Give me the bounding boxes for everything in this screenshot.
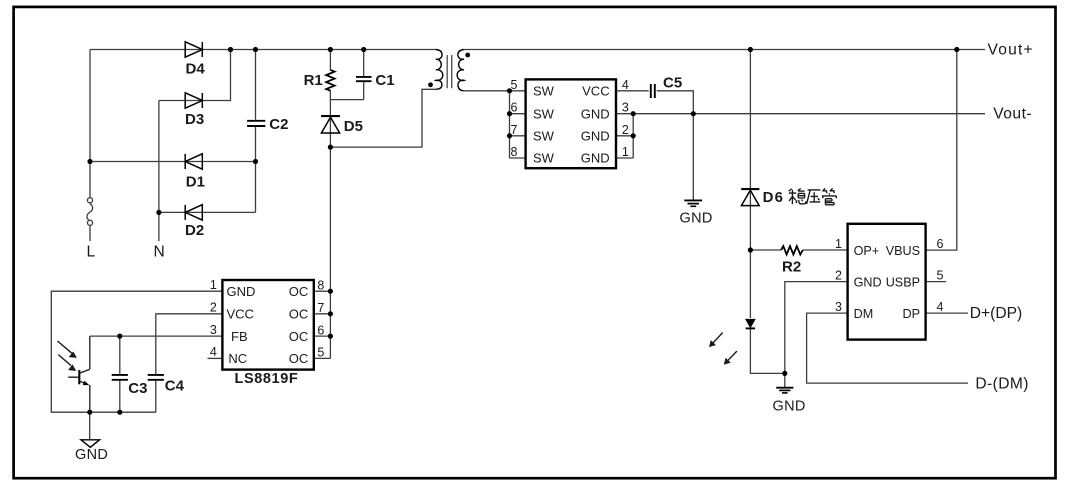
svg-text:1: 1	[210, 278, 217, 292]
svg-text:C1: C1	[375, 72, 394, 89]
wire U1 pin 7 stub	[510, 135, 526, 137]
junction node pin 5 bus	[507, 88, 512, 93]
svg-text:C5: C5	[663, 75, 682, 92]
wire C2 vertical branch	[255, 50, 257, 213]
svg-text:D3: D3	[185, 111, 204, 128]
wire U1 pin 6 stub	[510, 113, 526, 115]
svg-text:SW: SW	[533, 128, 555, 143]
svg-text:6: 6	[511, 101, 518, 115]
wire D2 row	[159, 211, 256, 213]
diode D1	[185, 154, 202, 169]
svg-text:N: N	[154, 243, 165, 260]
svg-text:SW: SW	[533, 106, 555, 121]
svg-text:SW: SW	[533, 84, 555, 99]
wire U3 pin 3 stub	[314, 335, 331, 337]
transformer T1 core	[447, 55, 452, 88]
wire U3 pin 4 NC stub	[208, 357, 223, 359]
junction node N / D2 row	[156, 210, 161, 215]
svg-text:GND: GND	[581, 106, 610, 121]
light arrow 2 into phototransistor	[58, 355, 71, 366]
svg-text:5: 5	[511, 78, 518, 92]
capacitor C1 plates	[356, 77, 372, 81]
svg-text:DM: DM	[854, 307, 874, 321]
ground symbol (earth) below middle IC	[684, 200, 702, 206]
svg-text:6: 6	[317, 323, 324, 337]
svg-text:NC: NC	[228, 351, 247, 366]
wire R2 row	[750, 249, 847, 251]
wire C5 right to Vout- junction	[657, 91, 694, 114]
junction node OC pin 8	[328, 289, 333, 294]
junction node right ground	[782, 371, 787, 376]
svg-text:5: 5	[317, 346, 324, 360]
capacitor C2 plates	[247, 121, 265, 126]
svg-text:Vout-: Vout-	[993, 106, 1032, 123]
light arrow 1 into phototransistor	[58, 341, 77, 371]
transformer secondary phase dot	[465, 53, 470, 58]
wire U1 left pin bus vertical	[509, 91, 511, 158]
junction node top rail / D6 branch	[748, 47, 753, 52]
junction node C3 / bottom rail	[117, 410, 122, 415]
wire right ground drop	[784, 373, 786, 387]
svg-text:FB: FB	[231, 329, 248, 344]
capacitor C3 plates	[112, 375, 128, 380]
svg-text:OC: OC	[289, 351, 309, 366]
svg-text:GND: GND	[680, 210, 713, 226]
wire D6 vertical branch	[749, 50, 751, 251]
diode D4	[185, 42, 202, 57]
junction node OC pin 6	[328, 334, 333, 339]
svg-text:8: 8	[317, 279, 324, 293]
capacitor C5 plates	[651, 84, 655, 98]
svg-text:GND: GND	[854, 275, 882, 289]
resistor R2 zigzag	[781, 246, 803, 254]
svg-text:C3: C3	[128, 380, 147, 397]
svg-text:3: 3	[210, 323, 217, 337]
ground symbol (triangle) opto side	[81, 440, 100, 448]
svg-text:3: 3	[835, 300, 842, 314]
svg-text:7: 7	[511, 123, 518, 137]
svg-text:D2: D2	[185, 222, 204, 239]
junction node top rail / C2	[253, 47, 258, 52]
wire top rail left (rectifier output to transformer primary)	[90, 49, 436, 51]
wire D3 row	[159, 50, 231, 101]
IC U3 LS8819F body	[222, 280, 313, 370]
svg-text:GND: GND	[581, 151, 610, 166]
LED emission arrow 1	[709, 333, 737, 365]
svg-text:1: 1	[835, 237, 842, 251]
wire U3 pin 1 stub	[314, 290, 331, 292]
svg-text:OC: OC	[289, 307, 309, 322]
svg-text:GND: GND	[773, 399, 806, 415]
svg-text:SW: SW	[533, 151, 555, 166]
wire C1 branch	[363, 50, 365, 100]
diode D3	[185, 93, 202, 108]
svg-text:6: 6	[937, 237, 944, 251]
diode D2	[185, 205, 202, 220]
wire N input vertical	[158, 101, 160, 242]
svg-text:GND: GND	[75, 447, 108, 463]
wire top rail right (secondary to Vout+)	[464, 49, 985, 51]
wire L input lead	[89, 162, 91, 242]
wire Vout- row from pin 3	[616, 113, 985, 115]
wire LED branch	[750, 250, 784, 373]
wire U2 pin 5 USBP stub	[926, 281, 946, 283]
svg-text:4: 4	[210, 345, 217, 359]
hand-drawn Chinese char ya (pressure)	[807, 190, 821, 204]
resistor R1 zigzag	[326, 70, 334, 91]
junction node D5 / primary return	[328, 145, 333, 150]
zener diode D6	[741, 190, 759, 205]
wire U2 pin 2 GND down to ground	[785, 282, 848, 374]
svg-text:D1: D1	[186, 174, 205, 191]
wire U1 pin 4 to C5	[616, 90, 649, 92]
wire U3 pin 2 stub	[314, 313, 331, 315]
svg-text:OP+: OP+	[854, 244, 880, 258]
wire U3 pin 2 VCC to C4	[156, 314, 223, 412]
svg-text:D4: D4	[186, 60, 206, 77]
svg-text:D5: D5	[344, 118, 363, 135]
wire middle ground drop	[692, 114, 694, 201]
svg-text:4: 4	[622, 78, 629, 92]
junction node top rail / C1	[361, 47, 366, 52]
wire R1-C1 bottom link	[330, 99, 363, 101]
svg-text:3: 3	[622, 101, 629, 115]
wire U3 pin 5 stub	[314, 357, 331, 359]
fuse F1 on L input	[87, 198, 92, 203]
transformer T1 primary winding	[436, 50, 443, 90]
svg-text:VBUS: VBUS	[886, 244, 920, 258]
svg-text:5: 5	[937, 269, 944, 283]
svg-text:USBP: USBP	[886, 275, 920, 289]
svg-text:VCC: VCC	[582, 84, 609, 99]
wire U1 pin 8 stub	[510, 157, 526, 159]
junction node pin 3 stub	[631, 111, 636, 116]
junction node top rail / D3	[228, 47, 233, 52]
wire U2 pin 3 DM to D-	[807, 313, 968, 383]
svg-text:2: 2	[210, 301, 217, 315]
svg-text:C2: C2	[269, 116, 288, 133]
svg-text:GND: GND	[581, 128, 610, 143]
svg-text:LS8819F: LS8819F	[235, 371, 299, 387]
transformer primary phase dot	[428, 82, 433, 87]
wire left vertical from top rail to D1 row	[89, 50, 91, 162]
capacitor C4 plates	[148, 375, 164, 380]
hand-drawn Chinese char guan (tube)	[822, 188, 836, 205]
junction node top rail / VBUS	[954, 47, 959, 52]
wire U2 pin 6 VBUS up to Vout+	[926, 50, 957, 251]
wire D5 junction to transformer primary bottom	[330, 89, 436, 147]
junction node L / D1 row	[87, 159, 92, 164]
wire U3 pin 1 GND loop left and bottom	[51, 291, 222, 412]
wire U1 pin 5 stub	[510, 90, 526, 92]
wire R1/D5 vertical branch	[329, 50, 331, 359]
svg-text:D+(DP): D+(DP)	[970, 305, 1022, 322]
junction node top rail / R1	[328, 47, 333, 52]
wire opto ground lead	[89, 412, 91, 439]
wire U1 pin 1 stub and link to pins 2,3	[616, 114, 633, 158]
svg-text:Vout+: Vout+	[988, 42, 1034, 59]
svg-text:4: 4	[937, 300, 944, 314]
LED of optocoupler (emitter side)	[746, 319, 755, 328]
svg-text:8: 8	[511, 145, 518, 159]
IC U2 (right) body	[848, 224, 926, 340]
IC U1 switch (middle) body	[526, 79, 616, 168]
wire U1 pin 2 stub	[616, 135, 633, 137]
svg-text:DP: DP	[903, 307, 921, 321]
svg-text:2: 2	[622, 123, 629, 137]
transformer T1 secondary winding	[457, 50, 464, 91]
wire U3 pin 3 FB to phototransistor collector	[90, 335, 223, 337]
wire C3 branch	[119, 336, 121, 412]
ground symbol (earth) right side	[776, 388, 793, 393]
svg-text:D-(DM): D-(DM)	[975, 375, 1029, 392]
junction node D1 row / C2	[253, 159, 258, 164]
phototransistor of optocoupler Q1	[68, 336, 90, 412]
svg-text:1: 1	[622, 145, 629, 159]
junction node emitter / bottom rail	[87, 410, 92, 415]
junction node D6 / R2	[748, 247, 753, 252]
junction node Vout- / C5 ground	[691, 111, 696, 116]
junction node FB / C3	[117, 334, 122, 339]
svg-text:GND: GND	[227, 284, 256, 299]
LED emission arrow 2	[728, 351, 737, 360]
zener diode D5	[321, 117, 339, 133]
svg-text:L: L	[87, 243, 96, 260]
svg-text:C4: C4	[165, 378, 185, 395]
hand-drawn Chinese char wen (stable)	[789, 188, 806, 204]
wire D1 row	[90, 161, 256, 163]
svg-text:D6: D6	[763, 189, 785, 206]
svg-text:OC: OC	[289, 284, 309, 299]
svg-text:R2: R2	[782, 259, 801, 276]
junction node OC pin 7	[328, 311, 333, 316]
svg-text:R1: R1	[304, 72, 323, 89]
svg-text:OC: OC	[289, 329, 309, 344]
junction node pin 7 bus	[507, 133, 512, 138]
svg-text:7: 7	[317, 301, 324, 315]
svg-text:2: 2	[835, 269, 842, 283]
junction node pin 6 bus	[507, 111, 512, 116]
wire secondary bottom to pin 5	[464, 90, 510, 92]
svg-text:VCC: VCC	[227, 307, 254, 322]
wire U2 pin 4 DP to D+	[926, 312, 968, 314]
junction node pin 2 stub	[631, 133, 636, 138]
